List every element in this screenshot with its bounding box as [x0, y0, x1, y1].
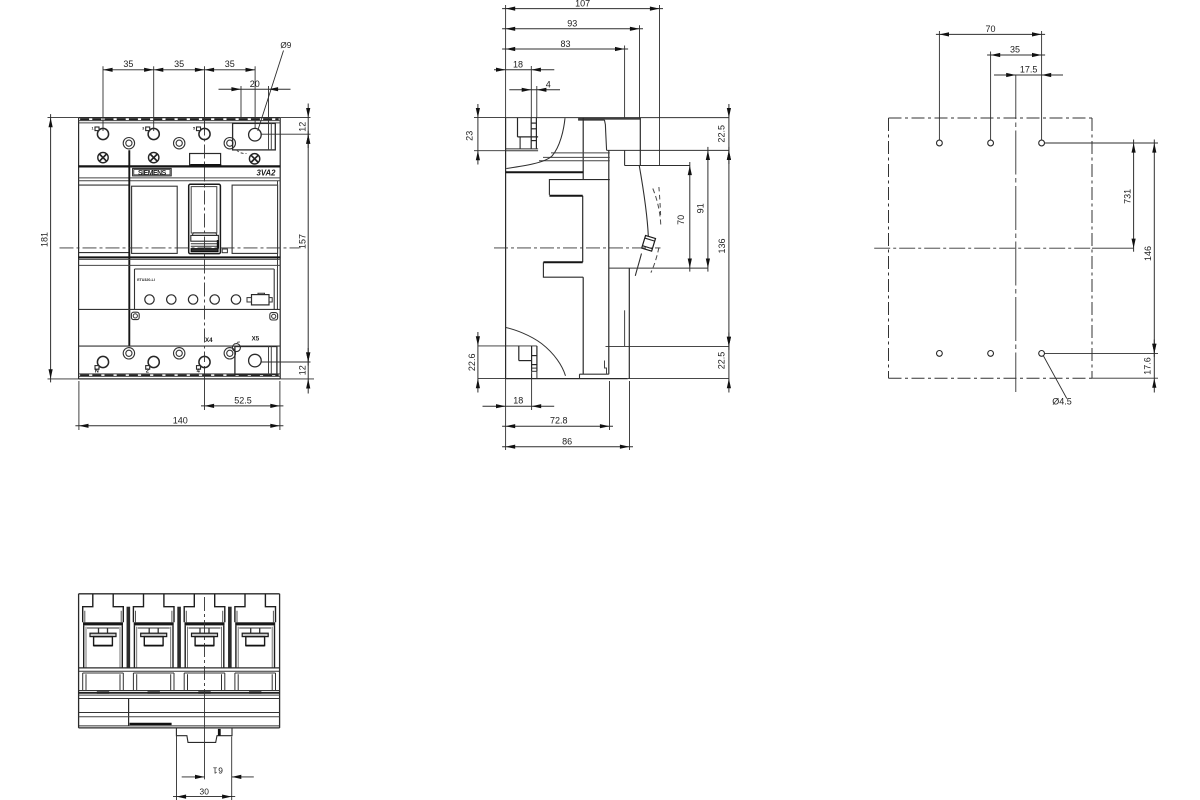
dim 12 top right	[280, 117, 310, 119]
dim 17.6	[1153, 340, 1155, 393]
dim 91 right	[707, 147, 709, 272]
din clip steps	[605, 361, 609, 375]
DIN rail tab	[176, 728, 232, 743]
rating label window	[190, 154, 221, 166]
dim 18 bottom	[483, 405, 555, 407]
svg-text:23: 23	[465, 131, 475, 141]
heavy vertical module edge	[128, 150, 130, 346]
svg-text:93: 93	[567, 19, 577, 29]
svg-text:146: 146	[1143, 246, 1153, 261]
full width seams	[79, 667, 280, 669]
dim 17.5	[994, 74, 1063, 76]
bottom dims	[505, 379, 507, 450]
dim 731	[1133, 140, 1135, 252]
dim 72.8	[502, 425, 613, 427]
dim 4	[509, 89, 560, 91]
svg-text:86: 86	[562, 436, 572, 446]
SIEMENS logo plate	[133, 168, 172, 176]
breaker body outline front view	[79, 117, 281, 119]
svg-text:22.5: 22.5	[717, 352, 727, 370]
shroud top edge	[579, 118, 641, 120]
top terminal circle pole 1	[97, 128, 108, 139]
svg-text:91: 91	[696, 203, 706, 213]
svg-text:107: 107	[575, 0, 590, 8]
svg-text:35: 35	[174, 59, 184, 69]
dim 22.5 top right	[728, 104, 730, 164]
dim 140	[78, 381, 80, 430]
svg-text:70: 70	[985, 24, 995, 34]
svg-text:83: 83	[560, 39, 570, 49]
dim 107	[502, 8, 663, 10]
front bulge curve	[639, 166, 648, 236]
svg-text:1: 1	[91, 127, 93, 131]
dim 35 drill	[987, 54, 1045, 56]
bottom view outline	[79, 593, 280, 595]
top right terminal extension box	[233, 123, 276, 149]
mounting holes	[937, 140, 943, 146]
svg-text:Ø9: Ø9	[280, 41, 291, 50]
svg-text:17.6: 17.6	[1142, 357, 1152, 375]
leader dia 4.5	[1044, 356, 1067, 399]
upper molded curve	[506, 118, 565, 168]
dim 146	[1153, 140, 1155, 357]
lower left clamp	[478, 345, 537, 347]
leader dia 9	[258, 51, 284, 131]
bottom vent strip	[79, 373, 281, 375]
toggle recess	[189, 184, 221, 253]
step line to front face	[607, 149, 729, 151]
test connector	[252, 295, 270, 305]
svg-text:1: 1	[213, 766, 218, 776]
hidden dashed curve	[653, 189, 661, 227]
dim 70 right	[689, 162, 691, 272]
toggle knob profile	[578, 118, 580, 120]
lower front section	[609, 267, 708, 269]
top vent strip	[80, 118, 279, 120]
dim 22.5 bottom right	[728, 333, 730, 393]
bottom terminal circle pole N	[97, 356, 108, 367]
dim 22.6 left	[477, 332, 479, 393]
dim 35 x3	[103, 69, 255, 71]
svg-text:157: 157	[298, 234, 308, 249]
cover interlock latch	[642, 235, 656, 251]
trip unit panel	[135, 268, 275, 270]
dim 23 left	[474, 117, 506, 119]
top left terminal clamp	[517, 118, 519, 137]
dim 93	[502, 28, 643, 30]
svg-text:ETU320-LI: ETU320-LI	[137, 278, 155, 282]
extension line from top terminal	[261, 133, 310, 135]
dim 83	[502, 48, 628, 50]
center horizontal line	[874, 247, 1092, 249]
vertical centerline pole C	[204, 122, 206, 363]
svg-text:20: 20	[250, 79, 260, 89]
dim 18 top	[494, 69, 554, 71]
top terminal circle pole 3	[148, 128, 159, 139]
toggle handle	[192, 233, 217, 236]
extension line from bottom terminal	[261, 361, 310, 363]
dim 19	[182, 776, 205, 778]
svg-text:18: 18	[513, 59, 523, 69]
heavy cover line	[79, 165, 281, 167]
front shroud	[624, 150, 626, 165]
svg-text:2: 2	[146, 368, 149, 374]
svg-text:35: 35	[123, 59, 133, 69]
svg-text:52.5: 52.5	[234, 395, 252, 405]
dim 52.5	[204, 366, 206, 410]
column protrusion lower	[543, 261, 582, 263]
bottom terminal circle pole 2	[148, 356, 159, 367]
svg-text:18: 18	[513, 396, 523, 406]
svg-text:140: 140	[173, 416, 188, 426]
svg-text:22.5: 22.5	[717, 125, 727, 143]
svg-text:22.6: 22.6	[467, 354, 477, 372]
dim 30	[173, 796, 235, 798]
extension lines for 35 chain	[102, 66, 104, 131]
svg-text:3VA2: 3VA2	[257, 168, 277, 177]
pole separator grooves	[127, 607, 131, 668]
svg-text:30: 30	[200, 786, 210, 796]
svg-text:12: 12	[297, 122, 307, 132]
svg-text:SIEMENS: SIEMENS	[138, 170, 167, 177]
recessed cover panels	[79, 184, 129, 186]
center vertical line	[1015, 75, 1017, 392]
toggle column	[582, 118, 584, 180]
small square next to toggle	[222, 249, 227, 253]
corner nuts	[131, 312, 139, 319]
ext verticals top	[505, 5, 507, 118]
side view centerline	[494, 247, 661, 249]
dim 86	[502, 446, 633, 448]
svg-text:72.8: 72.8	[550, 416, 568, 426]
dim 70 drill	[936, 33, 1045, 35]
svg-text:136: 136	[717, 238, 727, 253]
svg-text:181: 181	[39, 232, 49, 247]
svg-text:9: 9	[218, 766, 223, 776]
svg-text:35: 35	[1010, 45, 1020, 55]
svg-text:35: 35	[225, 59, 235, 69]
extension lines right	[1045, 142, 1159, 144]
svg-text:17.5: 17.5	[1020, 65, 1038, 75]
column protrusion upper	[549, 180, 609, 195]
centerline bottom view	[204, 597, 206, 690]
2nd row cross screws	[98, 152, 108, 162]
svg-text:70: 70	[676, 215, 686, 225]
mounting plate dash-dot outline	[889, 117, 1093, 119]
svg-text:3: 3	[142, 127, 144, 131]
horizontal centerline front view	[60, 247, 300, 249]
lower molded curve	[506, 328, 566, 376]
dim 20	[240, 86, 242, 117]
svg-text:X5: X5	[252, 336, 260, 343]
top terminal screws row	[123, 138, 134, 149]
bottom right terminal extension box	[235, 347, 277, 375]
top terminal circle pole 5	[199, 128, 210, 139]
svg-text:731: 731	[1122, 189, 1132, 204]
svg-text:4: 4	[546, 80, 551, 90]
svg-text:12: 12	[297, 365, 307, 375]
inner right edge	[277, 181, 279, 309]
dim 12 bottom right	[280, 378, 314, 380]
dim 157 right	[307, 131, 309, 366]
dim 181 left	[48, 117, 79, 119]
dim 136 right	[728, 147, 730, 350]
svg-text:N: N	[95, 368, 99, 374]
svg-text:5: 5	[193, 127, 195, 131]
svg-text:X4: X4	[205, 337, 213, 344]
trip unit setting dials	[145, 295, 154, 304]
bottom terminal circle pole 4	[199, 356, 210, 367]
cover step lines left	[551, 152, 610, 154]
hole extension verticals	[938, 31, 940, 140]
side view outline	[505, 118, 507, 379]
bottom terminal screws row	[123, 348, 134, 359]
svg-text:Ø4.5: Ø4.5	[1052, 397, 1072, 407]
